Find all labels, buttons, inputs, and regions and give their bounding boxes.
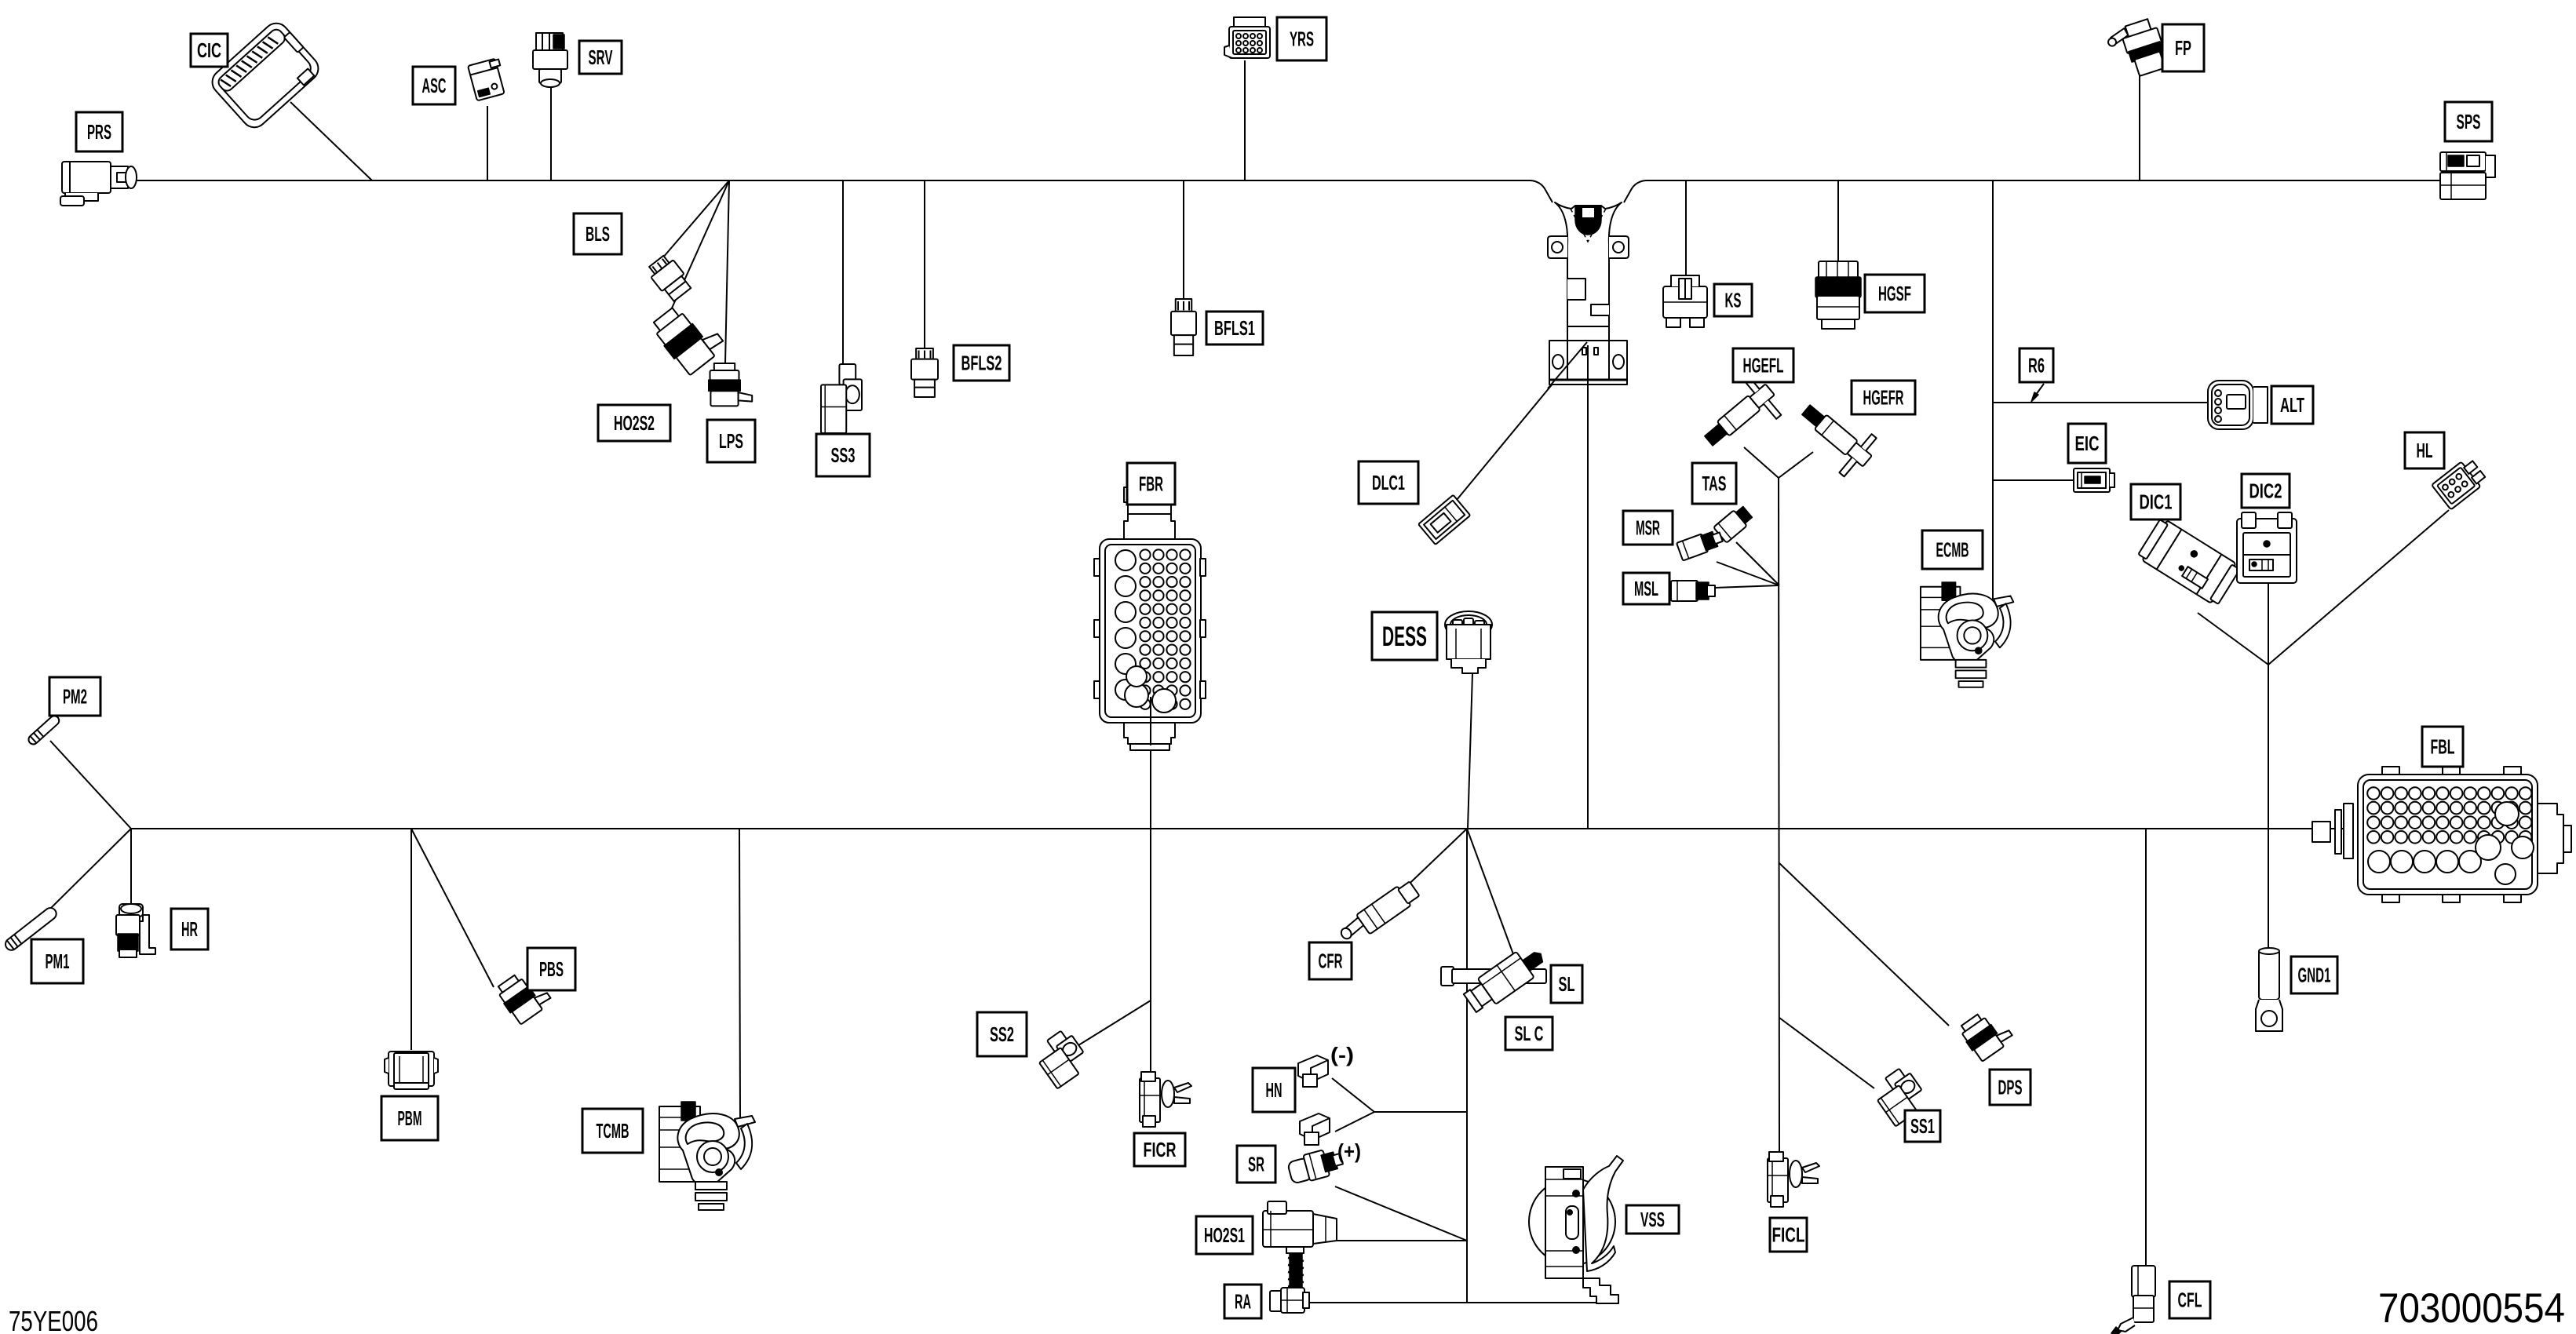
connector MSR: [1677, 528, 1724, 561]
wire bracket drop over plate: [1548, 342, 1587, 388]
label SR: [1237, 1146, 1275, 1183]
label EIC: [2068, 424, 2106, 463]
svg-text:ASC: ASC: [422, 74, 447, 97]
label HL: [2405, 432, 2444, 468]
svg-text:BLS: BLS: [586, 222, 610, 246]
svg-text:LPS: LPS: [719, 429, 743, 453]
label TCMB: [582, 1109, 643, 1153]
svg-text:DIC2: DIC2: [2249, 479, 2282, 503]
connector ASC: [468, 58, 508, 101]
wire RA to VSS: [1308, 1302, 1609, 1303]
wire bus to BLS: [658, 180, 729, 264]
svg-text:MSL: MSL: [1634, 577, 1658, 600]
svg-text:HN: HN: [1266, 1078, 1283, 1102]
wire FBL link: [2330, 828, 2348, 829]
wire bracket to DLC1: [1453, 342, 1587, 505]
connector SS1: [1870, 1065, 1931, 1126]
top bus right segment: [1624, 180, 2443, 202]
svg-text:FICL: FICL: [1772, 1223, 1805, 1247]
connector FICL: [1768, 1152, 1819, 1207]
wire bracket vertical over plate: [1587, 345, 1589, 392]
connector PRS: [60, 162, 137, 206]
connector SPS: [2440, 152, 2495, 199]
svg-text:PBM: PBM: [398, 1106, 422, 1130]
connector FBL: [2312, 767, 2571, 902]
svg-text:TCMB: TCMB: [597, 1119, 629, 1143]
wire SRV to bus: [550, 83, 552, 180]
connector PBM: [385, 1052, 438, 1089]
label FICR: [1134, 1133, 1185, 1166]
svg-text:703000554: 703000554: [2378, 1285, 2565, 1332]
label FBL: [2422, 727, 2463, 767]
wire GND1 drop: [2268, 665, 2269, 948]
connector LPS: [709, 363, 752, 406]
label LPS: [707, 420, 755, 462]
connector HO2S1: [1263, 1201, 1337, 1303]
wire TAS merge: [1736, 542, 1779, 585]
label SL: [1551, 965, 1582, 1003]
label DIC2: [2242, 474, 2290, 508]
svg-text:(+): (+): [1337, 1139, 1361, 1163]
label HO2S2: [598, 405, 670, 441]
wire MSL merge: [1714, 585, 1779, 588]
wire HGSF to bus: [1837, 180, 1839, 261]
wire DESS drop: [1468, 673, 1472, 829]
connector SRV: [533, 33, 567, 87]
wire R6 to ALT: [1993, 402, 2208, 403]
label DLC1: [1359, 461, 1418, 504]
label CFL: [2169, 1281, 2210, 1318]
wire bus to CFR: [1398, 829, 1467, 895]
wire HO2S1 to center: [1337, 1240, 1467, 1241]
label HR: [171, 909, 208, 949]
connector DESS: [1445, 611, 1492, 673]
wire HGEFL merge: [1744, 447, 1779, 478]
svg-text:HGEFL: HGEFL: [1743, 354, 1784, 377]
svg-text:SRV: SRV: [589, 46, 613, 69]
wire HGEFR merge: [1779, 452, 1813, 478]
connector HR: [116, 904, 155, 957]
wire EIC branch: [1993, 479, 2074, 481]
wire bus to SL: [1467, 829, 1521, 975]
connector SR: [1286, 1146, 1345, 1185]
label BLS: [574, 213, 622, 254]
label SS1: [1905, 1110, 1940, 1142]
connector BFLS1: [1171, 299, 1196, 355]
connector RA: [1270, 1288, 1309, 1313]
svg-text:SL C: SL C: [1515, 1022, 1544, 1045]
svg-text:DESS: DESS: [1382, 621, 1427, 652]
svg-text:TAS: TAS: [1702, 472, 1727, 495]
wire bus to PBS: [411, 829, 494, 987]
connector BFLS2: [911, 348, 938, 397]
connector SS2: [1031, 1027, 1093, 1088]
svg-text:PRS: PRS: [87, 120, 111, 144]
svg-text:GND1: GND1: [2298, 964, 2331, 987]
wire to DPS: [1779, 863, 1949, 1026]
wire SR to center: [1335, 1186, 1467, 1241]
connector PBS: [494, 966, 553, 1026]
label DESS: [1372, 612, 1437, 660]
svg-text:DIC1: DIC1: [2140, 490, 2173, 514]
wire HR drop: [130, 829, 132, 905]
svg-text:RA: RA: [1235, 1290, 1251, 1314]
wire CIC to bus: [290, 102, 372, 180]
svg-text:EIC: EIC: [2075, 432, 2100, 455]
svg-text:KS: KS: [1725, 289, 1742, 312]
svg-text:PM1: PM1: [46, 949, 70, 973]
wire MSR merge: [1717, 562, 1779, 585]
connector DPS: [1957, 1005, 2015, 1063]
wire bracket drop: [1587, 345, 1589, 829]
label SS2: [977, 1012, 1027, 1056]
label BFLS2: [954, 345, 1009, 381]
bracket: [1548, 202, 1629, 385]
svg-text:BFLS1: BFLS1: [1214, 316, 1255, 340]
wire TAS HGE drop: [1779, 478, 1779, 1153]
wire ASC to bus: [487, 106, 488, 180]
connector ALT: [2208, 381, 2268, 429]
label KS: [1714, 284, 1752, 316]
connector ECMB: [1921, 582, 2013, 687]
connector SL: [1441, 941, 1549, 1016]
label PBS: [527, 948, 575, 990]
connector PM2: [27, 714, 61, 746]
label DIC1: [2131, 484, 2180, 519]
label HGSF: [1865, 275, 1925, 312]
connector TCMB: [659, 1102, 755, 1210]
wire PBM drop: [410, 829, 412, 1050]
connector YRS: [1224, 17, 1270, 58]
label ECMB: [1922, 530, 1983, 569]
wire to SS2: [1072, 1000, 1151, 1049]
connector HN minus: [1298, 1055, 1328, 1087]
svg-text:MSR: MSR: [1636, 516, 1660, 540]
wire BFLS2 to bus: [924, 180, 925, 349]
label FICL: [1770, 1218, 1807, 1252]
wire BFLS1 to bus: [1183, 180, 1184, 300]
label YRS: [1277, 17, 1326, 60]
label HO2S1: [1196, 1216, 1253, 1254]
label HN: [1253, 1068, 1295, 1112]
wire bus to LPS: [725, 180, 729, 363]
svg-text:SS2: SS2: [990, 1022, 1014, 1046]
svg-text:SPS: SPS: [2457, 110, 2481, 133]
svg-text:VSS: VSS: [1640, 1208, 1665, 1231]
wire bus to HO2S2: [667, 180, 729, 319]
connector CFL: [2111, 1266, 2155, 1334]
svg-text:75YE006: 75YE006: [9, 1305, 98, 1334]
label PM2: [49, 677, 100, 716]
svg-text:DPS: DPS: [1998, 1076, 2023, 1099]
label SL_C: [1505, 1017, 1553, 1050]
wire PM1 to bus: [50, 829, 131, 909]
wire YRS to bus: [1244, 60, 1246, 180]
svg-text:ECMB: ECMB: [1936, 538, 1969, 562]
wire HL merge: [2268, 510, 2449, 665]
label ASC: [413, 67, 455, 104]
label HGEFR: [1852, 381, 1915, 414]
connector KS: [1663, 275, 1707, 327]
svg-text:HL: HL: [2417, 439, 2433, 462]
svg-text:BFLS2: BFLS2: [961, 352, 1002, 375]
label TAS: [1692, 463, 1736, 504]
connector HGEFR: [1789, 392, 1882, 482]
connector CIC: [207, 18, 323, 133]
wire center drop: [1466, 829, 1468, 1303]
text 75YE006: [9, 1305, 98, 1334]
connector VSS: [1529, 1156, 1623, 1303]
wire KS to bus: [1685, 180, 1687, 276]
wire to SS1: [1779, 1018, 1874, 1088]
svg-text:CIC: CIC: [197, 38, 221, 62]
text 703000554: [2378, 1285, 2565, 1332]
label SS3: [816, 434, 870, 476]
connector HL: [2432, 456, 2488, 509]
svg-text:HGSF: HGSF: [1878, 282, 1911, 305]
top bus left segment: [135, 180, 1553, 202]
label R6: [2020, 348, 2053, 382]
connector HN plus: [1300, 1113, 1330, 1145]
connector HGSF: [1815, 261, 1861, 329]
connector SS3: [821, 364, 862, 433]
svg-text:R6: R6: [2028, 354, 2045, 377]
label FBR: [1127, 463, 1175, 505]
svg-text:DLC1: DLC1: [1372, 471, 1405, 494]
label ALT: [2271, 386, 2313, 424]
label PRS: [76, 112, 122, 151]
connector DIC1: [2136, 517, 2242, 607]
connector GND1: [2256, 948, 2282, 1031]
label GND1: [2291, 957, 2337, 993]
svg-text:YRS: YRS: [1290, 27, 1314, 51]
lower bus: [131, 828, 2312, 829]
connector BLS: [645, 253, 694, 304]
connector FICR: [1140, 1072, 1191, 1127]
R6 pointer arrow: [2031, 384, 2044, 402]
label CIC: [191, 34, 228, 67]
svg-text:FBR: FBR: [1139, 472, 1163, 496]
connector HO2S2: [649, 296, 728, 377]
label HGEFL: [1733, 348, 1793, 382]
label VSS: [1626, 1205, 1679, 1234]
connector HGEFL: [1694, 371, 1787, 461]
wire HN to center: [1374, 1111, 1467, 1113]
connector DIC2: [2237, 512, 2297, 583]
wire SS3 to bus: [842, 180, 844, 365]
svg-text:PM2: PM2: [63, 685, 87, 709]
label CFR: [1309, 942, 1352, 979]
svg-text:FICR: FICR: [1144, 1138, 1177, 1161]
svg-text:HR: HR: [181, 917, 198, 941]
label MSL: [1623, 573, 1669, 604]
svg-text:HGEFR: HGEFR: [1863, 386, 1904, 410]
wire DIC1 merge: [2198, 613, 2268, 665]
svg-text:HO2S2: HO2S2: [614, 411, 655, 435]
connector CFR: [1337, 879, 1421, 948]
wire DIC2 merge: [2268, 584, 2269, 665]
svg-text:(-): (-): [1330, 1043, 1354, 1066]
label BFLS1: [1206, 312, 1263, 344]
label plus: [1337, 1139, 1361, 1163]
wire TCMB drop: [739, 829, 740, 1117]
connector FBR: [1094, 487, 1206, 750]
wire ECMB drop: [1992, 180, 1994, 600]
svg-text:SR: SR: [1248, 1153, 1264, 1176]
wire FBR to FICR: [1150, 698, 1151, 1073]
wire PM2 to bus: [50, 741, 131, 829]
label DPS: [1990, 1070, 2031, 1105]
connector PM1: [3, 906, 59, 953]
label MSR: [1623, 511, 1673, 545]
svg-text:SS1: SS1: [1910, 1114, 1935, 1138]
label PM1: [31, 939, 83, 983]
connector TAS: [1713, 504, 1754, 542]
wire FP to bus: [2139, 75, 2140, 180]
connector DLC1: [1418, 495, 1470, 545]
label SRV: [579, 41, 622, 74]
svg-text:PBS: PBS: [539, 957, 564, 981]
svg-text:SL: SL: [1559, 972, 1575, 996]
label minus: [1330, 1043, 1354, 1066]
wire HN plus: [1335, 1112, 1374, 1132]
label FP: [2162, 24, 2204, 71]
svg-text:CFR: CFR: [1319, 949, 1343, 973]
svg-text:ALT: ALT: [2280, 393, 2304, 417]
svg-text:HO2S1: HO2S1: [1204, 1223, 1245, 1247]
svg-text:SS3: SS3: [831, 443, 856, 467]
wire FBR tail over body: [1150, 697, 1151, 745]
connector FP: [2105, 17, 2169, 82]
svg-text:CFL: CFL: [2178, 1288, 2202, 1312]
wire CFL drop: [2145, 829, 2147, 1266]
wire HN minus: [1332, 1078, 1374, 1112]
connector EIC: [2074, 468, 2114, 492]
label SPS: [2445, 102, 2492, 141]
label PBM: [381, 1096, 438, 1140]
connector MSL: [1671, 581, 1715, 601]
svg-text:FP: FP: [2175, 36, 2191, 60]
label RA: [1224, 1285, 1261, 1318]
svg-text:FBL: FBL: [2431, 735, 2455, 759]
